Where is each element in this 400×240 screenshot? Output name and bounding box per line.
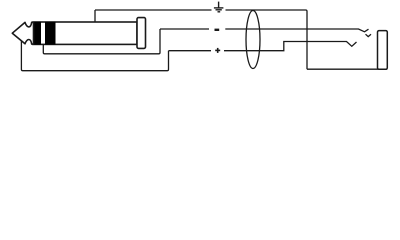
wire: negative (ring) run left of minus label bbox=[160, 28, 209, 30]
label: minus sign bbox=[215, 29, 220, 31]
wire: tip wire drop from plug tip bbox=[21, 41, 168, 71]
label: plus sign bbox=[215, 48, 220, 53]
cable shield ellipse bbox=[246, 11, 260, 69]
right connector: contact sleeve bbox=[378, 31, 388, 70]
wire: sleeve/ground riser from plug barrel top bbox=[94, 10, 96, 23]
ground symbol bbox=[214, 2, 224, 12]
wire: ground top run (left of ground symbol) bbox=[95, 9, 212, 11]
wire: ground top run (right of ground symbol) to right connector bbox=[226, 10, 308, 69]
right connector: body bottom edge bbox=[307, 68, 387, 70]
TRS plug P1: tip bbox=[12, 22, 33, 44]
TRS plug P1: end cap bbox=[137, 18, 146, 49]
TRS plug P1: barrel bbox=[33, 22, 137, 44]
wire: ring wire drop at plug (between insulator bands) bbox=[43, 29, 160, 54]
wire: negative end chevron bbox=[366, 34, 372, 36]
wire: positive (tip) run left of plus label bbox=[169, 50, 212, 52]
TRS plug P1: insulator band 1 bbox=[33, 22, 41, 45]
wire: positive (tip) run right of plus label with jog up and end flick bbox=[224, 42, 357, 51]
TRS plug P1: insulator band 2 bbox=[45, 22, 56, 45]
wire: negative (ring) run right of minus label with end flick bbox=[225, 29, 368, 32]
